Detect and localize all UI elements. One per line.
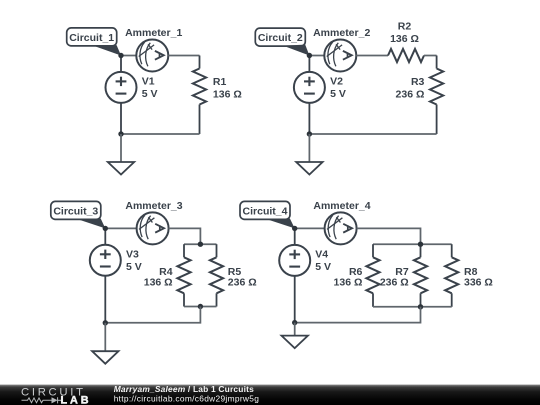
wire bottom rail circuit3 (184, 306, 217, 308)
resistor R6 (366, 244, 379, 307)
wire node4 to ammeter A4 (295, 227, 325, 229)
node circuit4 top (292, 226, 297, 231)
wire node2 to ammeter A2 (309, 55, 324, 57)
svg-text:Ammeter_2: Ammeter_2 (313, 27, 370, 39)
node circuit3 bottom (103, 320, 108, 325)
svg-text:136 Ω: 136 Ω (144, 277, 173, 289)
svg-text:5 V: 5 V (315, 261, 331, 273)
wire to ground G1 (120, 134, 122, 162)
resistor R5 (210, 244, 223, 306)
wire A2 to R2 (356, 55, 388, 57)
svg-text:V2: V2 (330, 76, 343, 88)
svg-text:Circuit_4: Circuit_4 (243, 205, 288, 217)
label R7 236ohm (380, 266, 409, 289)
svg-text:Circuit_1: Circuit_1 (69, 32, 114, 44)
svg-text:5 V: 5 V (330, 88, 346, 100)
resistor R4 (177, 244, 190, 306)
resistor R7 (414, 244, 427, 307)
resistor R3 (430, 56, 443, 135)
node rail top circuit4 (418, 242, 423, 247)
wire node1 to ammeter A1 (121, 55, 136, 57)
logo resistor-diode squiggle (22, 397, 63, 403)
svg-text:R3: R3 (411, 76, 425, 88)
label R1 136ohm (213, 76, 242, 101)
node rail bottom circuit4 (418, 304, 423, 309)
label V4 5V (315, 248, 331, 272)
ammeter AM3 (137, 212, 169, 244)
wire A4 to parallel block (357, 228, 421, 244)
resistor R1 (193, 56, 206, 135)
node rail bottom circuit3 (198, 304, 203, 309)
node rail top circuit3 (198, 242, 203, 247)
wire A3 to parallel block (169, 228, 201, 244)
label R4 136ohm (144, 266, 173, 289)
node circuit2 top (307, 53, 312, 58)
node circuit3 top (103, 226, 108, 231)
wire R2 to R3 corner (424, 55, 437, 57)
wire A1 to R1 top (168, 55, 199, 57)
svg-text:LAB: LAB (61, 395, 92, 405)
svg-text:Ammeter_3: Ammeter_3 (125, 200, 182, 212)
svg-text:236 Ω: 236 Ω (228, 277, 257, 289)
svg-text:Circuit_2: Circuit_2 (258, 32, 303, 44)
callout wedge Circuit_3 (79, 219, 106, 229)
wire bottom circuit1 (121, 133, 200, 135)
wire to ground G3 (104, 323, 106, 351)
label R3 236ohm (396, 76, 425, 101)
ammeter AM1 (136, 40, 168, 72)
svg-text:Ammeter_4: Ammeter_4 (313, 200, 370, 212)
svg-text:136 Ω: 136 Ω (213, 89, 242, 101)
callout wedge Circuit_2 (283, 45, 309, 56)
svg-text:R2: R2 (398, 21, 412, 33)
resistor R2 (388, 49, 424, 62)
node circuit2 bottom (307, 131, 312, 136)
label V1 5V (142, 76, 158, 100)
svg-text:Circuit_3: Circuit_3 (53, 205, 98, 217)
label R8 336ohm (464, 266, 493, 289)
svg-text:5 V: 5 V (142, 88, 158, 100)
wire bottom rail circuit4 (373, 306, 452, 308)
label Circuit_3 (51, 201, 101, 219)
wire to ground G4 (294, 323, 296, 339)
svg-text:Ammeter_1: Ammeter_1 (125, 27, 182, 39)
svg-text:136 Ω: 136 Ω (334, 277, 363, 289)
svg-text:5 V: 5 V (126, 261, 142, 273)
wire bottom circuit2 (309, 133, 436, 135)
label V2 5V (330, 76, 346, 100)
ammeter AM2 (324, 40, 356, 72)
wire node3 to ammeter A3 (105, 227, 136, 229)
svg-text:236 Ω: 236 Ω (396, 89, 425, 101)
ground G1 (108, 162, 134, 175)
svg-text:V3: V3 (126, 248, 139, 260)
voltage source V4 (279, 228, 310, 322)
resistor R8 (445, 244, 458, 307)
wire parallel block to bottom circuit3 (105, 307, 200, 323)
wire parallel block to bottom circuit4 (295, 307, 421, 323)
label V3 5V (126, 248, 142, 272)
svg-text:http://circuitlab.com/c6dw29jm: http://circuitlab.com/c6dw29jmprw5g (114, 393, 260, 403)
label Circuit_4 (240, 201, 290, 219)
ammeter AM4 (325, 212, 357, 244)
svg-text:V4: V4 (315, 248, 328, 260)
voltage source V3 (90, 228, 121, 322)
callout wedge Circuit_4 (268, 219, 295, 229)
label Circuit_1 (67, 28, 117, 46)
svg-text:R1: R1 (213, 76, 227, 88)
ground G2 (296, 162, 322, 175)
wire top rail circuit4 (373, 243, 452, 245)
node circuit1 top (118, 53, 123, 58)
wire to ground G2 (308, 134, 310, 162)
label R5 236ohm (228, 266, 257, 289)
svg-text:336 Ω: 336 Ω (464, 277, 493, 289)
node circuit4 bottom (292, 320, 297, 325)
ground G4 (282, 336, 308, 349)
label R2 136ohm (390, 21, 419, 45)
voltage source V2 (294, 56, 325, 135)
label R6 136ohm (334, 266, 363, 289)
voltage source V1 (106, 56, 137, 135)
callout wedge Circuit_1 (95, 45, 122, 55)
svg-text:236 Ω: 236 Ω (380, 277, 409, 289)
wire top rail circuit3 (184, 243, 217, 245)
label Circuit_2 (255, 28, 305, 46)
footer bar (0, 385, 540, 405)
svg-text:V1: V1 (142, 76, 155, 88)
node circuit1 bottom (118, 131, 123, 136)
ground G3 (92, 351, 118, 364)
svg-text:136 Ω: 136 Ω (390, 33, 419, 45)
